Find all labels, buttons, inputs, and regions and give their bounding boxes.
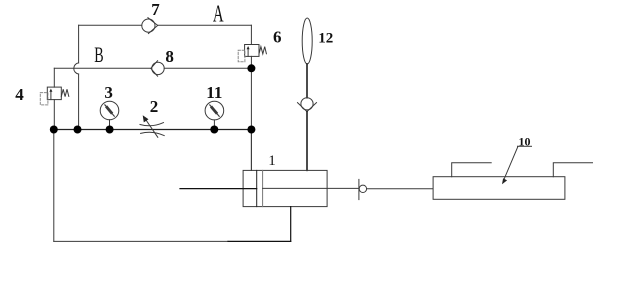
svg-text:7: 7 (151, 0, 160, 19)
svg-text:2: 2 (150, 97, 159, 116)
svg-text:12: 12 (318, 30, 333, 46)
svg-text:11: 11 (206, 83, 222, 102)
svg-text:B: B (94, 43, 103, 67)
svg-text:4: 4 (15, 85, 24, 104)
svg-text:A: A (213, 1, 224, 27)
svg-text:3: 3 (104, 83, 113, 102)
svg-text:1: 1 (268, 153, 276, 169)
svg-text:10: 10 (519, 135, 531, 149)
svg-text:6: 6 (273, 27, 282, 46)
svg-text:8: 8 (165, 47, 174, 66)
